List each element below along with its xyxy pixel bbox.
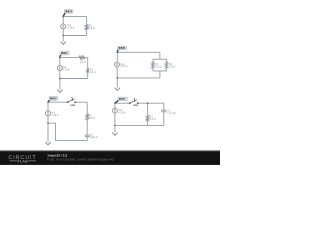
- wire top C5: [115, 99, 164, 108]
- junction C2 bottom: [59, 78, 61, 80]
- wire right C1: [82, 16, 91, 35]
- wire left C2: [55, 57, 64, 78]
- switch SW1 C5: [129, 98, 138, 104]
- wire feed down C3: [155, 52, 164, 59]
- wire right C4: [83, 102, 92, 140]
- svg-text:1.21 pF: 1.21 pF: [167, 112, 175, 115]
- net label flag C2: [60, 51, 69, 57]
- wire top C1: [63, 12, 86, 21]
- wire top C3: [117, 48, 160, 57]
- resistor R1 C4: [86, 114, 89, 120]
- left branch C3: [148, 59, 157, 71]
- right branch C3: [162, 59, 171, 71]
- current source IS1 C2: [57, 65, 62, 70]
- current source IS1 C4: [46, 111, 51, 116]
- junction C4: [47, 122, 49, 124]
- capacitor C1 C5: [161, 106, 166, 114]
- resistor R1 C3: [152, 62, 155, 69]
- svg-text:0.25 A: 0.25 A: [51, 114, 58, 117]
- wire right C5: [159, 103, 168, 125]
- svg-text:0.25 A: 0.25 A: [67, 26, 74, 29]
- current source IS1 C1: [61, 24, 66, 29]
- wire left C5: [110, 103, 119, 125]
- junction C5 bottom: [114, 125, 116, 127]
- svg-text:0.5 Ω: 0.5 Ω: [169, 65, 175, 68]
- CircuitLab logo: [8, 154, 36, 163]
- junction C3 bottom: [117, 77, 119, 79]
- svg-text:SW1: SW1: [70, 104, 75, 107]
- current source IS1 C3: [115, 62, 120, 67]
- net label flag C4: [48, 97, 58, 103]
- node dot C5 corner: [114, 102, 116, 104]
- svg-text:zeepo10 / 2.2: zeepo10 / 2.2: [47, 154, 67, 158]
- svg-text:0.25 A: 0.25 A: [118, 111, 125, 114]
- node dot C2 corner: [59, 57, 61, 59]
- svg-text:C1: C1: [167, 109, 170, 112]
- ground C5: [112, 125, 118, 135]
- resistor R1 C1: [85, 24, 88, 30]
- switch SW1 C4: [67, 97, 76, 103]
- resistor R1 C2 horizontal: [79, 56, 85, 59]
- wire feed bottom C3: [155, 71, 164, 78]
- wire top C2: [60, 53, 88, 62]
- svg-text:0.5 Ω: 0.5 Ω: [90, 71, 96, 74]
- net label flag C5: [115, 97, 127, 103]
- wire bottom C4 Z: [48, 123, 87, 140]
- svg-text:0.5 Ω: 0.5 Ω: [89, 117, 95, 120]
- resistor R1 C5: [146, 115, 149, 121]
- svg-text:SW1: SW1: [133, 104, 138, 107]
- svg-text:0.5 Ω: 0.5 Ω: [89, 27, 95, 30]
- capacitor C1 C4: [85, 131, 90, 139]
- ground C1: [60, 36, 66, 45]
- wire bottom C3: [117, 73, 160, 82]
- svg-text:0.5 Ω: 0.5 Ω: [150, 118, 156, 121]
- svg-text:0.25 A: 0.25 A: [63, 68, 70, 71]
- svg-text:100n F: 100n F: [90, 136, 98, 139]
- svg-text:C1: C1: [90, 133, 93, 136]
- svg-text:http://circuitlab.com/c6aemxvq: http://circuitlab.com/c6aemxvqwjx43: [47, 158, 114, 162]
- junction C1 bottom-left: [62, 35, 64, 37]
- wire right C2: [83, 57, 92, 78]
- ground C2: [57, 79, 63, 93]
- bottom bus C3: [153, 67, 167, 76]
- resistor R2 C2: [86, 68, 89, 73]
- resistor R2 C3: [165, 62, 168, 69]
- ground C4: [45, 123, 51, 145]
- branch R1 C5: [143, 103, 152, 125]
- svg-text:0.5 Ω: 0.5 Ω: [156, 65, 162, 68]
- net label flag C1: [63, 10, 73, 17]
- black bar: [0, 150, 220, 165]
- ground C3: [115, 78, 121, 91]
- node dot C3 corner: [117, 52, 119, 54]
- junction C5 top: [147, 102, 149, 104]
- node dot C1 corner: [62, 16, 64, 18]
- svg-text:0.5 Ω: 0.5 Ω: [80, 61, 86, 64]
- svg-text:0.25 A: 0.25 A: [120, 65, 127, 68]
- wire left C4: [44, 102, 53, 123]
- top bus C3: [153, 55, 167, 64]
- svg-text:LAB: LAB: [20, 159, 28, 163]
- wire bottom C1: [63, 31, 86, 40]
- wire bottom C2: [60, 74, 88, 83]
- wire bottom C5: [115, 121, 164, 130]
- wire left C1: [59, 16, 68, 35]
- wire left C3: [113, 52, 122, 78]
- current source IS1 C5: [113, 108, 118, 113]
- node dot C4 corner: [47, 101, 49, 103]
- wire top C4: [48, 98, 87, 107]
- net label flag C3: [117, 46, 127, 52]
